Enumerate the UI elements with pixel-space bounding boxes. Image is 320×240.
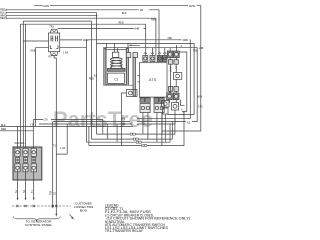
wire T1 corner [33, 120, 103, 148]
wire N bus [21, 24, 146, 148]
terminal block col2 [23, 148, 28, 172]
svg-text:M1B: M1B [31, 50, 36, 53]
legend underline [105, 206, 119, 208]
wire C1 bottom shadow [104, 84, 134, 86]
ATS bottom terminals circles [140, 104, 164, 113]
device CD circle box [127, 90, 138, 97]
wire loop4 stub [88, 127, 90, 146]
wire TR1 left [23, 41, 48, 127]
wire bus y43.4 [97, 43, 195, 114]
legend block [105, 203, 190, 233]
svg-text:N4A: N4A [151, 19, 156, 22]
wire RED row [0, 130, 33, 132]
wire right mid drop [175, 52, 187, 112]
wire row 118.7 [137, 118, 190, 120]
brace [13, 216, 61, 220]
ATS box [139, 63, 167, 97]
wire u bracket [170, 100, 185, 106]
terminal block outer [13, 147, 42, 180]
ATS gray bar [133, 58, 135, 97]
label TO GENERATOR CONTROL PANEL [25, 220, 53, 228]
svg-text:RED: RED [119, 22, 124, 25]
inline connectors [130, 133, 147, 146]
wire H2N top [34, 6, 201, 131]
wire TR1 right [60, 40, 90, 142]
svg-text:C1: C1 [114, 78, 118, 82]
connector chevrons left [6, 9, 8, 19]
svg-text:2WB: 2WB [183, 39, 189, 42]
right column: fuse rects upper [168, 60, 178, 64]
ATS top terminal 2 [150, 56, 155, 62]
svg-text:2DA: 2DA [83, 39, 88, 42]
wires into block top [18, 24, 34, 148]
right column: terminal circles pair bottom [167, 93, 179, 100]
terminal block col1 [15, 148, 20, 172]
dashed boundary customer box [12, 205, 71, 207]
svg-text:LT6: LT6 [44, 119, 49, 122]
wire bus y46.6 [103, 48, 197, 122]
svg-text:5,6: 5,6 [94, 74, 98, 77]
C1 top terminal boxes [126, 53, 137, 58]
wire TR1 topright [58, 27, 146, 29]
svg-text:CONTROL PANEL: CONTROL PANEL [25, 223, 53, 227]
wire row E2 [53, 122, 198, 207]
contactor C1 body [106, 50, 126, 85]
svg-text:21B: 21B [199, 47, 204, 50]
wire row 124 [39, 110, 175, 154]
svg-text:BLK: BLK [1, 124, 6, 127]
wire left RED 2 [8, 18, 156, 55]
wire aux mid [23, 21, 91, 148]
wires ATS top [144, 48, 167, 56]
svg-text:N4B: N4B [135, 28, 140, 31]
svg-text:1 N4: 1 N4 [63, 52, 69, 55]
svg-text:22B: 22B [168, 37, 173, 40]
label CUSTOMER CONNECTION BOX [74, 201, 94, 212]
svg-text:RED: RED [0, 17, 5, 20]
wire C1 tops [107, 43, 129, 52]
rotated wire labels bottom [15, 189, 34, 193]
svg-text:RED: RED [1, 128, 6, 131]
wires below block [18, 170, 34, 199]
right column: terminal circles pair top [167, 51, 179, 58]
ATS bottom band [137, 75, 139, 81]
wire arrows bottom [17, 198, 58, 217]
svg-text:TR1-TRANSFER RELAY: TR1-TRANSFER RELAY [105, 229, 144, 233]
arrow diagonal customer [70, 215, 74, 220]
svg-text:RED: RED [89, 77, 94, 80]
device box circle A [172, 103, 179, 111]
wire LS drop [162, 113, 165, 142]
wire bus y39.8 [90, 40, 191, 119]
wire left RED 1 [8, 10, 160, 55]
wire arrow 22B [129, 44, 140, 46]
LS stack left [162, 101, 170, 115]
svg-text:A: A [181, 109, 183, 112]
svg-text:E2: E2 [187, 122, 191, 125]
wire arrow row B [168, 114, 195, 116]
svg-text:BLK: BLK [122, 12, 127, 15]
svg-text:17N: 17N [198, 106, 203, 109]
svg-text:T54: T54 [50, 190, 53, 195]
svg-text:4B: 4B [140, 9, 143, 12]
terminal block col3 [31, 148, 36, 172]
svg-text:1TA: 1TA [30, 123, 35, 126]
svg-text:N1A: N1A [198, 96, 203, 99]
x marks on dashed line [16, 205, 57, 207]
relay TR1 [49, 29, 60, 55]
wire left WHT [8, 15, 98, 17]
svg-text:1 N4: 1 N4 [60, 147, 66, 150]
wire arrow row A [182, 111, 187, 113]
wire TR1 bottom [54, 56, 56, 215]
ATS top terminal 3 [157, 56, 162, 62]
svg-text:N1A N2A: N1A N2A [15, 142, 25, 145]
svg-text:H2N: H2N [189, 4, 195, 8]
svg-text:73: 73 [53, 145, 56, 148]
wire left BLK [8, 13, 97, 134]
ATS top terminal 4 [163, 56, 167, 62]
ATS top terminal 1 [143, 56, 148, 62]
svg-text:BOX: BOX [80, 208, 88, 212]
nested loop verticals [103, 93, 127, 146]
svg-text:H2N: H2N [43, 4, 49, 8]
contactor C1 right bar [126, 48, 128, 85]
contactor C1 left bar [104, 48, 106, 85]
wire BLK row [0, 126, 133, 128]
nested loop wires [87, 112, 185, 146]
right column: circle device [173, 73, 181, 80]
svg-text:ATS: ATS [149, 78, 157, 82]
ATS bottom terminals small [140, 98, 164, 103]
wires right column internal [170, 45, 178, 93]
wires ATS bottom drops [143, 113, 162, 146]
svg-text:T1B: T1B [193, 49, 198, 52]
svg-text:TR1: TR1 [49, 26, 54, 29]
right column: fuse rects lower [168, 87, 178, 92]
